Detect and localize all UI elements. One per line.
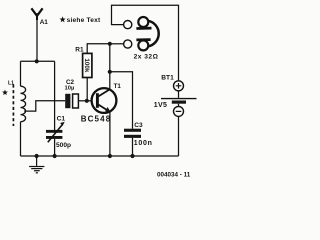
capacitor C3 100n [124,129,141,138]
transistor T1 BC548 [92,88,117,113]
star note marker (siehe Text) [59,16,65,22]
wire emitter down [109,112,111,156]
node base junction [85,99,89,103]
capacitor C2 (10u, polarized) [65,94,78,108]
node antenna junction [35,59,39,63]
node C3 branch junction [108,70,112,74]
svg-text:500p: 500p [56,142,71,149]
wire collector up [109,44,111,90]
node C1 bottom junction [53,154,57,158]
svg-text:100n: 100n [134,140,153,147]
svg-text:A1: A1 [40,19,49,26]
svg-text:siehe Text: siehe Text [67,17,101,24]
wire left rail upper [20,61,22,86]
node C3 bottom junction [130,154,134,158]
wire collector node to C3 [110,72,133,129]
svg-text:10µ: 10µ [65,85,75,91]
svg-text:C3: C3 [134,122,143,129]
wire C1 top (from top rail down) [54,61,56,130]
wire battery minus down to bottom rail [178,116,180,156]
capacitor C1 variable 500p [46,122,65,143]
svg-text:R1: R1 [75,47,84,54]
svg-text:T1: T1 [114,83,122,90]
svg-text:004034 - 11: 004034 - 11 [157,171,191,178]
wire C2 to base node [78,100,91,102]
svg-text:L1: L1 [8,81,14,87]
wire left rail lower [20,122,22,156]
wire lower phone terminal to collector node [110,43,124,45]
antenna A1 [31,8,42,20]
node emitter bottom junction [108,154,112,158]
svg-text:BT1: BT1 [161,74,174,81]
node collector junction [108,42,112,46]
wire top-left rail (L1 top to C1 top) [21,60,55,62]
wire L1 tap to C2 [24,101,65,111]
terminal lower phone jack [124,40,132,48]
svg-text:C1: C1 [57,116,66,123]
wire antenna stem down to top rail [36,18,38,61]
svg-text:2x 32Ω: 2x 32Ω [134,54,159,61]
wire C3 bottom [132,138,134,156]
inductor L1 [21,86,26,122]
wire R1 top to collector node [87,44,110,54]
wire R1 bottom to base node [86,78,88,101]
svg-text:BC548: BC548 [81,115,112,124]
L1 ferrite core (dashed) [12,85,14,127]
svg-text:100k: 100k [83,58,90,73]
wire upper terminal loop to battery plus [112,5,179,81]
headphone earpieces 2x 32 ohm [136,17,158,50]
node ground junction [35,154,39,158]
ground symbol [29,156,44,173]
wire C1 bottom [54,139,56,156]
wire bottom rail [21,155,179,157]
battery BT1 [161,81,197,117]
terminal upper phone jack [124,21,132,29]
star marker at L1 [2,90,8,96]
svg-text:1V5: 1V5 [154,102,167,109]
resistor R1 [83,53,92,77]
